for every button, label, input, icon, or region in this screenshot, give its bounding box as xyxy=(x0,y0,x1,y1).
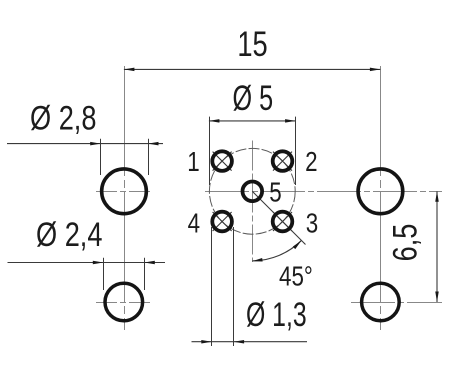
pitch circle O5 xyxy=(209,148,295,234)
45 deg diagonal line through pin 3 xyxy=(252,191,305,244)
arrow O5 right xyxy=(285,119,296,123)
mounting hole bottom-right xyxy=(362,283,400,321)
45 deg dimension arc xyxy=(252,240,301,260)
pin label 2 xyxy=(305,147,317,178)
extension lines O2,8 xyxy=(101,139,149,175)
pin 4 xyxy=(212,212,232,232)
svg-text:Ø 2,8: Ø 2,8 xyxy=(30,98,96,137)
centerline: horizontal bottom-left hole xyxy=(96,302,153,304)
pin 2 xyxy=(273,151,293,171)
extension lines O1,3 xyxy=(212,227,234,346)
cross pin 3 xyxy=(273,212,292,231)
pin 5 center xyxy=(243,182,263,202)
pin 3 xyxy=(273,212,293,232)
pin label 1 xyxy=(187,147,199,178)
centerline: horizontal bottom-right hole xyxy=(351,302,442,304)
centerline: vertical axis right mounting holes xyxy=(380,66,382,330)
svg-text:Ø 5: Ø 5 xyxy=(233,79,274,118)
pin 1 xyxy=(212,151,232,171)
centerline: vertical axis center cluster xyxy=(252,141,254,263)
centerline: horizontal through cluster and top-right hole xyxy=(205,191,442,193)
svg-text:2: 2 xyxy=(305,147,317,178)
label O1,3 xyxy=(246,296,307,334)
dimension O2,8 line xyxy=(7,143,163,145)
dimension 6,5 line xyxy=(436,191,438,302)
label O2,8 xyxy=(30,98,96,137)
dimension O1,3 line xyxy=(192,341,308,343)
arrow O2,4 left xyxy=(93,261,104,265)
svg-text:1: 1 xyxy=(187,147,199,178)
label 6,5 rotated xyxy=(386,224,425,262)
arrow O2,8 right (outside, pointing left) xyxy=(148,142,159,146)
label O2,4 xyxy=(36,215,102,254)
arrow 15 left xyxy=(124,68,134,72)
svg-text:Ø 1,3: Ø 1,3 xyxy=(246,296,307,334)
mounting hole top-left xyxy=(102,169,147,214)
mounting hole bottom-left xyxy=(105,283,143,321)
pin label 4 xyxy=(188,208,200,239)
arrow O2,8 left (outside, pointing right) xyxy=(90,142,101,146)
arrow O2,4 right xyxy=(144,261,155,265)
svg-text:4: 4 xyxy=(188,208,200,239)
arrow 15 right xyxy=(370,68,381,72)
svg-text:45°: 45° xyxy=(279,261,313,292)
cross pin 1 xyxy=(213,152,232,171)
dimension O5 line xyxy=(209,120,296,122)
dimension O2,4 line xyxy=(8,262,166,264)
centerline: vertical axis left mounting holes xyxy=(124,66,126,330)
arrow 6,5 top xyxy=(435,191,439,202)
pin label 5 xyxy=(269,177,281,208)
centerline: horizontal top-left hole xyxy=(96,191,153,193)
mounting hole top-right xyxy=(358,169,403,214)
label 45 deg xyxy=(279,261,313,292)
pin label 3 xyxy=(306,208,318,239)
svg-text:6,5: 6,5 xyxy=(386,224,425,262)
arrow arc top (on diagonal, pointing up-right) xyxy=(293,239,303,249)
extension lines O5 xyxy=(210,117,296,185)
svg-text:5: 5 xyxy=(269,177,281,208)
label O5 xyxy=(233,79,274,118)
label 15 xyxy=(237,25,267,64)
arrow arc bottom (at vertical line, pointing left) xyxy=(252,258,263,263)
svg-text:3: 3 xyxy=(306,208,318,239)
cross pin 4 xyxy=(213,212,232,231)
arrow O1,3 left xyxy=(201,340,212,344)
svg-text:15: 15 xyxy=(237,25,267,64)
cross pin 2 xyxy=(273,152,292,171)
arrow 6,5 bottom xyxy=(435,292,439,303)
arrow O1,3 right xyxy=(234,340,245,344)
dimension 15 line xyxy=(124,68,381,70)
extension lines O2,4 xyxy=(104,258,145,290)
arrow O5 left xyxy=(209,119,220,123)
svg-text:Ø 2,4: Ø 2,4 xyxy=(36,215,102,254)
